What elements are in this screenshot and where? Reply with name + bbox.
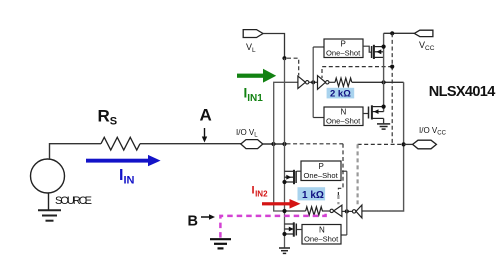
junction dot VL drop <box>282 56 286 60</box>
svg-text:2 kΩ: 2 kΩ <box>330 88 351 99</box>
node junction dot right <box>282 142 286 146</box>
vertical wire to lower one-shots <box>346 171 348 235</box>
resistor RS <box>101 137 140 150</box>
svg-text:One–Shot: One–Shot <box>326 117 361 126</box>
dashed sense line VCC to inverter U1B <box>322 67 392 78</box>
wire to I/O VCC connector <box>404 143 413 145</box>
vertical wire to one-shots <box>312 47 314 118</box>
wire source bottom stub <box>48 193 50 210</box>
svg-text:One–Shot: One–Shot <box>326 49 361 58</box>
junction dot dashed <box>390 65 394 69</box>
node B pointer arrow <box>201 216 210 218</box>
wire U1B to resistor <box>329 81 335 83</box>
inverter U1A <box>298 76 306 88</box>
dashed sense line I/O VCC net <box>358 143 404 145</box>
svg-text:1 kΩ: 1 kΩ <box>302 190 324 201</box>
wire to P one-shot <box>313 46 324 48</box>
svg-text:N: N <box>341 108 347 117</box>
wire RS to I/O VL connector <box>140 143 241 145</box>
inverter U2A (right, points left) <box>356 205 362 218</box>
junction dot Q3 <box>282 180 286 184</box>
junction dot lower inverter node <box>345 209 349 213</box>
svg-text:P: P <box>319 162 324 171</box>
svg-text:N: N <box>319 226 325 235</box>
dashed VCC power line <box>391 33 393 144</box>
svg-text:A: A <box>200 106 212 125</box>
1k value label <box>298 187 326 200</box>
wire P one-shot to Q3 gate <box>297 170 302 172</box>
2k value label <box>327 88 355 99</box>
magenta trace node B <box>220 212 325 238</box>
svg-text:P: P <box>341 40 346 49</box>
drain/source vertical line Q1-Q2 <box>383 33 385 111</box>
junction dot on drain line <box>382 80 386 84</box>
N one-shot (top) <box>324 107 363 126</box>
wire P one-shot to PMOS gate <box>363 46 371 52</box>
current arrow IIN1 (green) <box>237 69 276 83</box>
wire U2B to resistor 1k <box>322 210 330 212</box>
transistor Q4 NMOS (bottom, mirrored) <box>285 222 297 236</box>
wire to N one-shot <box>313 117 324 119</box>
resistor 2k <box>335 78 352 86</box>
wire N one-shot to Q4 gate <box>297 229 302 231</box>
wire resistor to I/O VL branch <box>285 210 306 212</box>
node A pointer arrow <box>204 128 206 138</box>
junction dot VCC rail <box>390 31 394 35</box>
wire U1A to U1B <box>309 81 318 83</box>
inverter U1B <box>318 76 326 90</box>
node junction dot left <box>271 142 275 146</box>
svg-text:VL: VL <box>246 42 256 54</box>
input branch vertical wire <box>274 82 298 211</box>
junction dot I/O VCC <box>402 142 406 146</box>
ground (top NMOS) <box>377 124 390 129</box>
svg-text:VCC: VCC <box>419 40 435 52</box>
svg-text:One–Shot: One–Shot <box>304 235 339 244</box>
dashed drop to lower left inverter <box>338 144 343 195</box>
wire U2A to U2B <box>342 210 353 212</box>
dashed sense line I/O VL net <box>287 143 344 145</box>
gray dashed drop to U2A <box>357 144 359 204</box>
junction dot inverter node <box>311 80 315 84</box>
wire resistor to output node <box>352 81 404 83</box>
ground (source) <box>38 210 61 220</box>
wire N one-shot to NMOS gate <box>363 113 368 115</box>
transistor Q1 PMOS (top) <box>372 45 384 59</box>
svg-text:IIN: IIN <box>119 167 135 187</box>
current arrow IIN (blue) <box>86 155 161 166</box>
transistor Q2 NMOS (top) <box>369 105 384 119</box>
left main vertical wire (VL to ground chain) <box>284 58 286 247</box>
VCC rail wire <box>384 32 415 34</box>
wire from source to main line <box>50 144 102 159</box>
resistor 1k <box>306 207 323 215</box>
output vertical wire to I/O VCC <box>362 82 404 211</box>
junction dot lower branch <box>282 209 286 213</box>
svg-text:I/O VCC: I/O VCC <box>419 126 447 137</box>
source V1 circle <box>31 159 65 193</box>
svg-text:IIN1: IIN1 <box>244 86 264 104</box>
current arrow IIN2 (red) <box>262 199 301 209</box>
P one-shot (top) <box>324 39 363 58</box>
svg-text:One–Shot: One–Shot <box>304 171 339 180</box>
svg-text:IIN2: IIN2 <box>252 185 269 199</box>
wire to lower P one-shot <box>342 170 347 172</box>
svg-text:B: B <box>188 214 198 230</box>
wire Q2 source to ground <box>383 118 385 123</box>
N one-shot (bottom) <box>302 225 341 245</box>
VL connector <box>243 30 263 38</box>
wire VL to vertical drop <box>263 34 285 59</box>
ground (bottom NMOS) <box>279 248 290 253</box>
P one-shot (bottom) <box>301 161 341 181</box>
svg-text:I/O VL: I/O VL <box>236 128 258 139</box>
svg-text:NLSX4014: NLSX4014 <box>429 84 496 100</box>
inverter U2B (left, points left) <box>334 205 342 216</box>
transistor Q3 PMOS (bottom, mirrored) <box>285 170 297 184</box>
svg-text:SOURCE: SOURCE <box>55 195 92 207</box>
dashed sense line VL to inverter U1A <box>287 58 299 75</box>
svg-text:RS: RS <box>98 107 118 128</box>
I/O VCC connector <box>413 140 437 149</box>
VCC connector <box>414 30 433 36</box>
I/O VL connector <box>241 140 263 149</box>
wire to lower N one-shot <box>341 234 347 236</box>
wire I/O VL to node line <box>263 143 286 145</box>
gray dashed drop to U2B <box>337 195 339 204</box>
ground (node B) <box>210 239 231 248</box>
